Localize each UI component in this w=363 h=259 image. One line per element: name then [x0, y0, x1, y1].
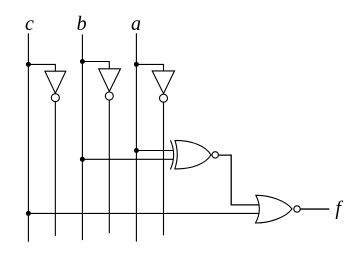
wire bottom bus from c to nor U5 [28, 212, 259, 214]
inverter U1 triangle [45, 71, 66, 93]
wire branch a to inverter U3 [136, 64, 163, 71]
wire branch b to inverter U2 [82, 62, 109, 69]
node junction a to inverter U3 [134, 62, 139, 67]
svg-text:f: f [335, 198, 343, 220]
wire nor U5 output to f [300, 208, 329, 210]
wire xnor U4 bottom input from b [82, 158, 173, 160]
node junction c to inverter U1 [26, 62, 31, 67]
svg-text:b: b [77, 13, 87, 35]
svg-text:a: a [131, 13, 141, 35]
nor gate U5 bubble [294, 206, 300, 212]
wire abar vertical [163, 102, 165, 235]
xnor gate U4 input arc [170, 140, 173, 169]
wire input b vertical [81, 34, 83, 240]
inverter U2 triangle [99, 69, 121, 92]
node junction b to inverter U2 [80, 59, 85, 64]
inverter U3 bubble [160, 94, 168, 102]
xnor gate U4 bubble [212, 152, 218, 158]
node junction a to xnor U4 [134, 148, 139, 153]
wire bbar vertical [108, 100, 110, 233]
svg-text:c: c [25, 13, 34, 35]
wire xnor U4 output to nor U5 [218, 155, 259, 205]
inverter U3 triangle [152, 71, 174, 94]
nor gate U5 body [256, 195, 293, 223]
xnor gate U4 body [175, 140, 211, 169]
inverter U2 bubble [105, 92, 113, 100]
wire cbar vertical [54, 102, 56, 236]
wire input a vertical [135, 33, 137, 241]
node junction b to xnor U4 [80, 157, 85, 162]
wire input c vertical [27, 33, 29, 241]
inverter U1 bubble [51, 94, 59, 102]
node junction c to output bus [26, 211, 31, 216]
wire branch c to inverter U1 [28, 64, 55, 71]
wire xnor U4 top input from a [136, 150, 173, 152]
